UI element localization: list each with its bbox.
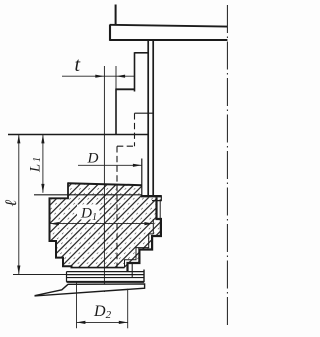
svg-text:D: D <box>87 149 99 166</box>
svg-text:ℓ: ℓ <box>3 200 20 207</box>
chuck right inner thin vertical 2 <box>152 219 154 234</box>
chuck top edge <box>68 183 142 185</box>
arrowhead D1 left (points left) <box>50 222 59 225</box>
arrowhead t right (points left) <box>116 75 125 78</box>
hidden (dashed) thread horizontal y146.2 <box>117 145 135 147</box>
dimension D1 line <box>50 223 153 225</box>
collar lower step edge <box>152 200 162 202</box>
chuck bottom edge <box>71 267 125 269</box>
dimension L1 line <box>42 135 44 193</box>
chuck right inner thin vertical <box>159 199 161 219</box>
spindle outer line A <box>147 40 149 195</box>
chuck left upper vertical <box>67 182 69 198</box>
collar bottom thick edge <box>141 195 162 197</box>
arrowhead D2 right (points right) <box>119 321 128 324</box>
arrowhead t left (points right) <box>95 75 104 78</box>
chuck right side outline thick <box>128 197 161 271</box>
inner step horizontal y113.2 <box>135 112 154 114</box>
nose step top horizontal <box>135 52 149 54</box>
plates: top line <box>67 271 145 273</box>
arrowhead l bottom (points down) <box>17 266 20 275</box>
white box for D1 label <box>77 205 100 220</box>
chuck left side outline <box>50 198 72 267</box>
arrowhead D2 left (points left) <box>77 321 86 324</box>
nose step vertical x116 <box>115 88 117 134</box>
arrowhead D (points right) <box>133 164 142 167</box>
long thin vertical x104.4 (t left extension) <box>103 66 105 292</box>
chuck recess floor line <box>34 194 142 196</box>
spindle flange bar top edge <box>110 25 228 27</box>
hidden (dashed) thread vertical x117 <box>116 146 118 267</box>
chuck right inner thin steps <box>125 234 154 268</box>
pilot diameter vertical x141.8 <box>141 159 143 197</box>
nose step vertical x134.5 <box>134 52 136 91</box>
plates: right edge <box>143 270 145 283</box>
dimension l line <box>18 135 20 275</box>
wedge (key) under the chuck <box>35 284 144 296</box>
long horizontal face line y134.5 <box>8 134 148 136</box>
spindle flange bar bottom edge <box>110 39 228 41</box>
plates: bottom thick line <box>67 281 145 283</box>
extension line x116 above (t right) <box>115 66 117 88</box>
plates: left edge <box>66 272 68 282</box>
arrowhead l top (points up) <box>17 135 20 144</box>
dimension D line <box>78 164 142 166</box>
spindle flange bar left edge <box>109 25 111 41</box>
plates: second line <box>67 274 145 276</box>
nose step horizontal y89 <box>116 88 135 90</box>
headstock wall stub line <box>115 5 117 26</box>
arrowhead D1 right (points right) <box>144 222 153 225</box>
adapter boss edge v132 <box>131 263 133 278</box>
centerline (axis, dash-dot) <box>226 5 228 326</box>
collar right edge <box>160 196 162 201</box>
D2 left extension line <box>76 283 78 329</box>
dimension D2 line <box>77 321 128 323</box>
svg-text:1: 1 <box>32 157 43 162</box>
plates: third line <box>67 277 145 279</box>
l bottom extension line <box>13 274 67 276</box>
D2 right extension line <box>127 289 129 329</box>
svg-text:t: t <box>75 54 81 76</box>
hidden (dashed) thread vertical x134.5 <box>134 113 136 146</box>
arrowhead L1 top (points up) <box>41 135 44 144</box>
svg-text:L: L <box>28 164 44 173</box>
dimension t line <box>62 75 135 77</box>
chuck left shoulder face <box>49 197 69 199</box>
arrowhead L1 bottom (points down) <box>41 184 44 193</box>
spindle outer line B <box>152 40 154 195</box>
